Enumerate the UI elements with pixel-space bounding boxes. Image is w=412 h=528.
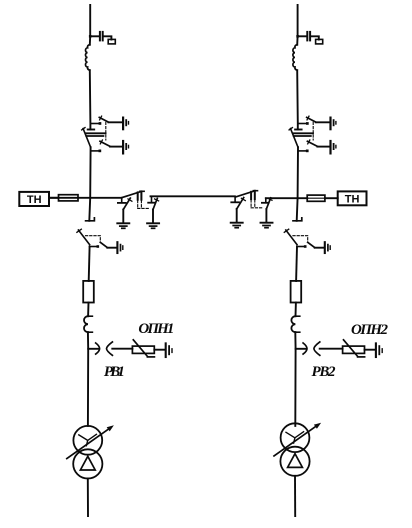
transfer bus left contact T — [151, 196, 153, 202]
feeder 2 (right) — [284, 5, 336, 426]
fuse (right TH) — [307, 195, 325, 201]
voltage transformer TH box (right) — [338, 191, 367, 205]
bus tie left group — [117, 191, 159, 228]
feeder 1 (left) — [77, 5, 129, 426]
svg-text:ТН: ТН — [27, 194, 42, 206]
arrester OPN2 branch — [343, 340, 383, 357]
svg-text:ТН: ТН — [345, 194, 360, 206]
wire: T2 bottom — [294, 476, 296, 516]
wire: T1 bottom — [87, 478, 89, 516]
svg-text:РВ2: РВ2 — [312, 364, 337, 380]
transformer T2 — [274, 423, 321, 476]
wire: spark gap to OPN1 — [112, 348, 132, 350]
transfer bus segment — [151, 195, 235, 197]
svg-text:ОПН2: ОПН2 — [351, 322, 389, 338]
wire: spark gap to OPN2 — [320, 348, 343, 350]
arrester OPN1 branch — [132, 340, 172, 357]
bus tie right group — [231, 191, 273, 228]
wire: TH left to bus — [49, 197, 59, 199]
bus left segment — [49, 197, 122, 199]
svg-text:РВ1: РВ1 — [104, 364, 125, 380]
bus right contact T — [265, 198, 267, 202]
bus right segment — [266, 197, 307, 199]
voltage transformer TH box (left) — [19, 192, 49, 206]
fuse (left TH) — [59, 195, 79, 201]
svg-text:ОПН1: ОПН1 — [138, 321, 174, 337]
wire: bus to TH right — [325, 197, 338, 199]
transformer T1 — [67, 425, 114, 478]
